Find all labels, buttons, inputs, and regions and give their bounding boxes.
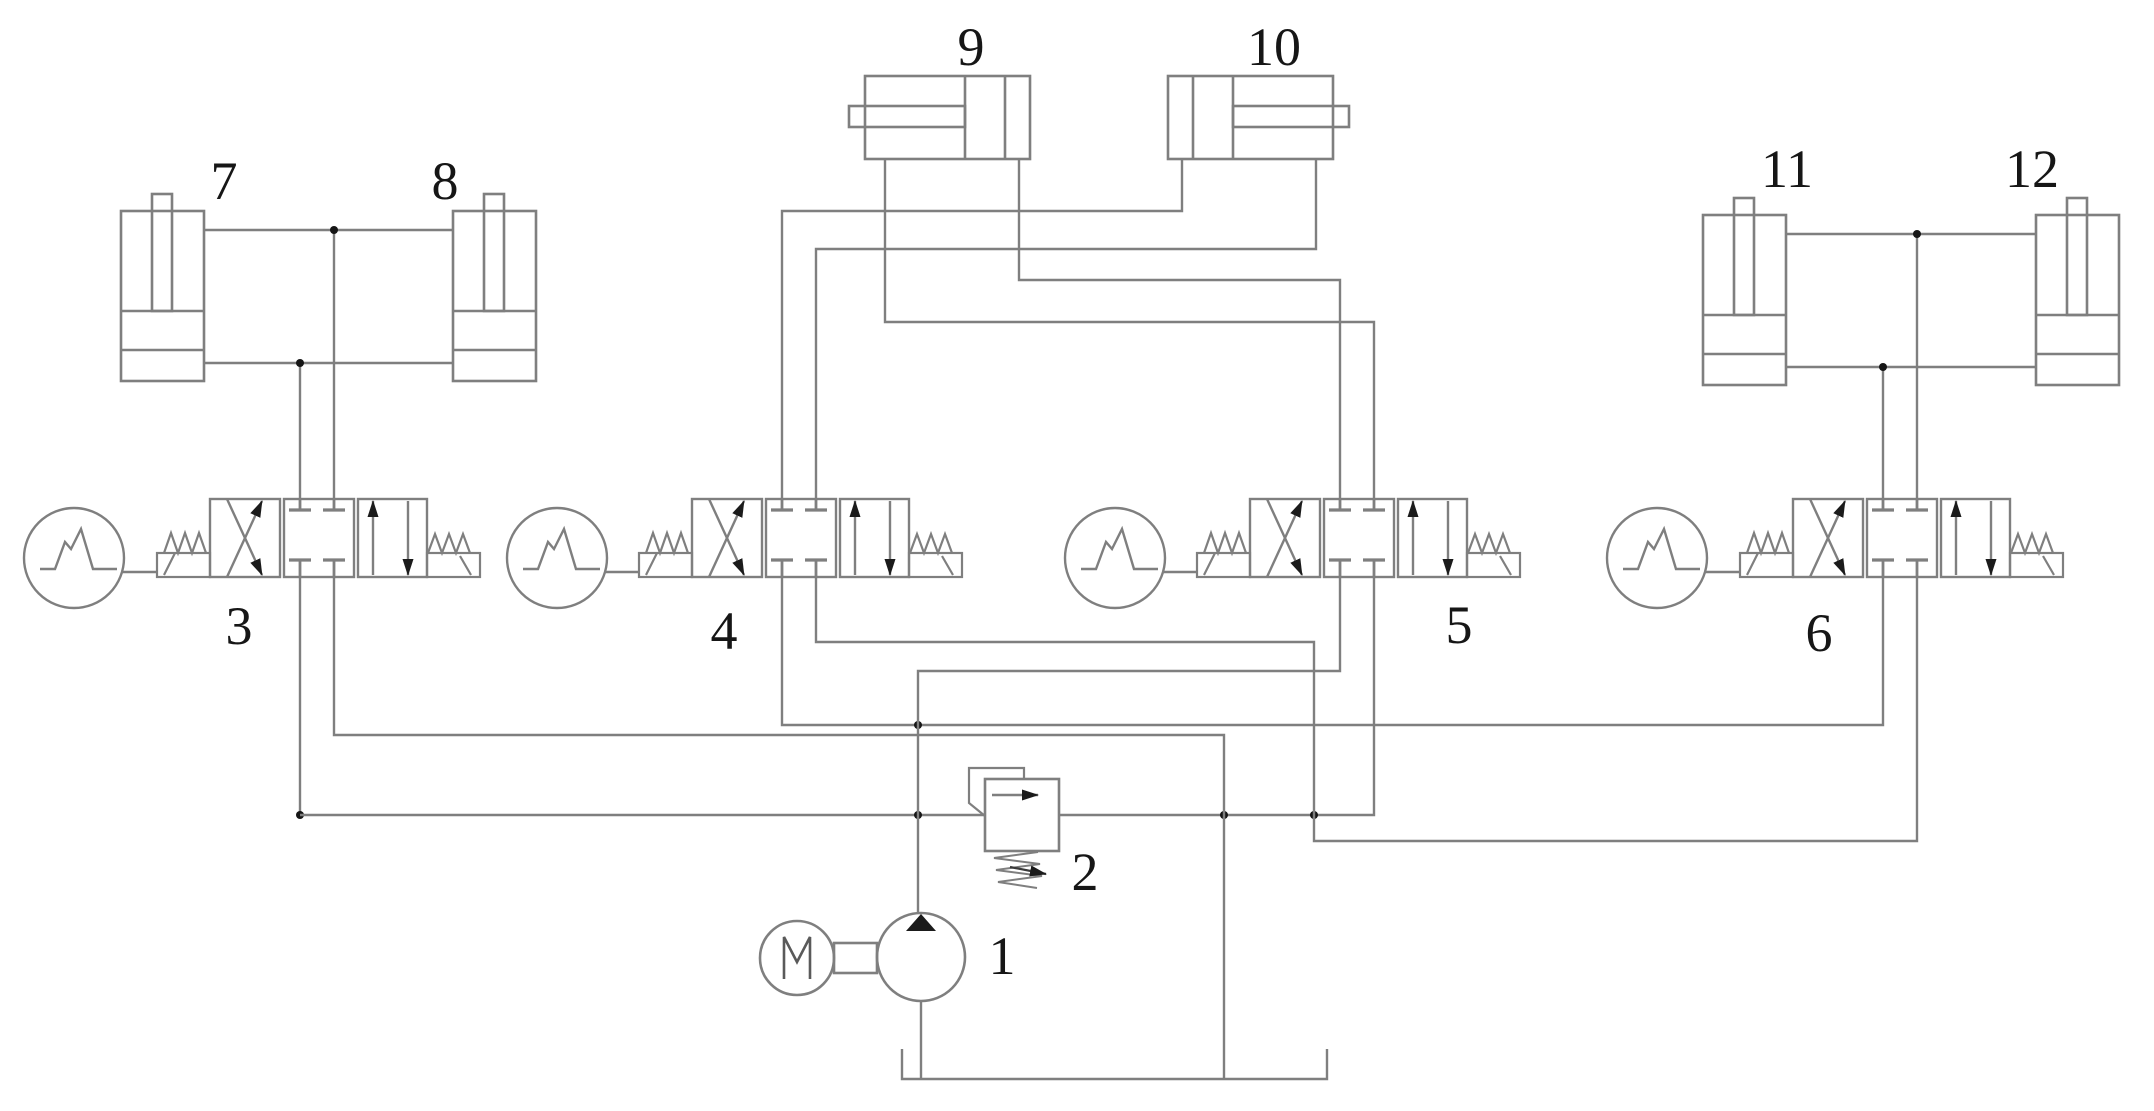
valve 6 left spring: [1747, 533, 1789, 553]
valve 5 left spring: [1204, 533, 1246, 553]
svg-text:10: 10: [1247, 17, 1301, 77]
junction valve6-B / cyl11-12 top wire: [1913, 230, 1921, 238]
wire cylinders 7-8 cap-end line: [204, 362, 453, 364]
wire valve 3 port B riser: [333, 230, 335, 499]
svg-text:2: 2: [1072, 842, 1099, 902]
relief valve 2 pilot box outline: [969, 768, 1024, 816]
valve 4 crossed arrows: [709, 499, 744, 577]
valve 4 center blocked ports: [771, 499, 827, 577]
pressure rail left of relief valve: [300, 814, 985, 816]
motor-pump shaft: [834, 943, 877, 973]
svg-text:1: 1: [989, 926, 1016, 986]
valve 3 right spring: [428, 534, 470, 553]
svg-text:8: 8: [432, 151, 459, 211]
cylinder 12 rod: [2067, 198, 2087, 315]
junction valve4-P line / pump riser: [914, 721, 922, 729]
svg-text:9: 9: [958, 17, 985, 77]
wire valve 3 port T to tank: [334, 577, 1224, 1079]
junction rail / tank riser: [1220, 811, 1228, 819]
pump 1: [877, 913, 965, 1001]
wire valve 6 port B riser: [1916, 234, 1918, 499]
svg-text:11: 11: [1761, 139, 1813, 199]
cylinder 10 body: [1168, 76, 1333, 159]
wire pilot to valve 4: [604, 571, 639, 573]
valve 4 pilot signal circle: [507, 508, 607, 608]
wire valve 3 port A riser: [299, 363, 301, 499]
valve 6 parallel arrows: [1956, 501, 1991, 575]
valve 6 right spring box: [2010, 553, 2063, 577]
valve 5 right spring box: [1467, 553, 1520, 577]
cylinder 7 body: [121, 211, 204, 381]
wire cylinder 9 left port to valve 5 port B: [885, 159, 1374, 499]
svg-text:12: 12: [2005, 139, 2059, 199]
cylinder 9 rod: [849, 106, 965, 127]
wire valve 3 port P drop: [299, 577, 301, 815]
cylinder 8 body: [453, 211, 536, 381]
valve 3 pilot signal circle: [24, 508, 124, 608]
valve 3 body: [210, 499, 427, 577]
cylinder 12 body: [2036, 215, 2119, 385]
cylinder 9 body: [865, 76, 1030, 159]
valve 6 crossed arrows: [1810, 499, 1845, 577]
wire valve 4 port B to cylinder 10 right port: [816, 159, 1316, 499]
valve 4 parallel arrows: [855, 501, 890, 575]
wire valve 4 port P to valve 6 port P: [782, 577, 1883, 725]
valve 3 left spring: [164, 533, 206, 553]
valve 6 center blocked ports: [1872, 499, 1928, 577]
relief valve 2 adjustment arrow: [1010, 867, 1046, 874]
junction rail / pump riser: [914, 811, 922, 819]
wire valve 4 port A to cylinder 10 left port: [782, 159, 1182, 499]
valve 5 left proportional solenoid box: [1197, 553, 1250, 577]
wire valve 4 port T to valve 6 port T: [816, 577, 1917, 841]
wire pilot to valve 3: [121, 571, 157, 573]
relief valve 2 body: [985, 779, 1059, 851]
valve 6 body: [1793, 499, 2010, 577]
valve 5 right spring: [1468, 534, 1510, 553]
svg-text:5: 5: [1446, 595, 1473, 655]
valve 4 right spring box: [909, 553, 962, 577]
valve 5 crossed arrows: [1267, 499, 1302, 577]
valve 4 left spring: [646, 533, 688, 553]
cylinder 8 rod: [484, 194, 504, 311]
valve 3 crossed arrows: [227, 499, 262, 577]
valve 5 parallel arrows: [1413, 501, 1448, 575]
svg-text:7: 7: [211, 151, 238, 211]
valve 3 right spring box: [427, 553, 480, 577]
cylinder 11 body: [1703, 215, 1786, 385]
motor M: [760, 921, 834, 995]
svg-text:3: 3: [226, 596, 253, 656]
svg-text:6: 6: [1806, 603, 1833, 663]
wire cylinders 7-8 rod-end line: [204, 229, 453, 231]
cylinder 11 rod: [1734, 198, 1754, 315]
wire cylinders 11-12 cap-end line: [1786, 366, 2036, 368]
wire cylinders 11-12 rod-end line: [1786, 233, 2036, 235]
wire pilot to valve 5: [1162, 571, 1197, 573]
valve 4 body: [692, 499, 909, 577]
svg-text:4: 4: [711, 601, 738, 661]
junction valve3-A / cyl7-8 bottom wire: [296, 359, 304, 367]
valve 6 pilot signal circle: [1607, 508, 1707, 608]
wire pilot to valve 6: [1704, 571, 1740, 573]
valve 4 left proportional solenoid box: [639, 553, 692, 577]
valve 3 left proportional solenoid box: [157, 553, 210, 577]
valve 6 right spring: [2011, 534, 2053, 553]
valve 5 center blocked ports: [1329, 499, 1385, 577]
valve 5 body: [1250, 499, 1467, 577]
wire pump outlet to valve 5 port A: [918, 577, 1340, 913]
cylinder 10 rod: [1233, 106, 1349, 127]
valve 3 center blocked ports: [289, 499, 345, 577]
wire valve 6 port A riser: [1882, 367, 1884, 499]
pump inlet pipe: [920, 1001, 922, 1079]
valve 6 left proportional solenoid box: [1740, 553, 1793, 577]
junction valve6-A / cyl11-12 bottom wire: [1879, 363, 1887, 371]
junction valve3-B / cyl7-8 top wire: [330, 226, 338, 234]
pressure rail right of relief valve: [1059, 577, 1374, 815]
relief valve 2 spring: [994, 852, 1042, 888]
wire cylinder 9 right port to valve 5 port A: [1019, 159, 1340, 499]
valve 3 parallel arrows: [373, 501, 408, 575]
cylinder 7 rod: [152, 194, 172, 311]
junction rail / valve4-T line: [1310, 811, 1318, 819]
tank reservoir: [902, 1049, 1327, 1079]
junction valve3-P / rail: [296, 811, 304, 819]
valve 4 right spring: [910, 534, 952, 553]
valve 5 pilot signal circle: [1065, 508, 1165, 608]
